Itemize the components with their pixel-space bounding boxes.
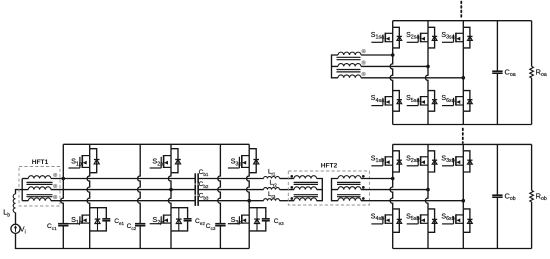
resistor R_oa [530,66,534,78]
label Ce2 [195,218,205,226]
capacitor Cc1 [58,224,68,226]
wire module-b leg 2 bottom cell vertical [427,209,429,232]
svg-text:Ce2: Ce2 [195,218,205,226]
transistor S1p&#8242; (clamp MOSFET, top) [68,155,89,168]
label S1p&#8242; [71,157,83,168]
wire phase 1 from Cb1 to Lr1 [198,178,263,180]
polarity dot HFT2 primary winding 1 [290,175,293,178]
wire module-a leg 2 from positive rail [427,21,429,28]
svg-text:S3sa: S3sa [441,32,454,41]
wire phase 2 from Cb2 to Lr2 [198,189,263,191]
transistor S3sb (top) [442,156,463,166]
label S4sa [371,95,384,104]
wire module-a leg 3 midsection [462,48,464,91]
wire module-a leg 2 bottom cell vertical [427,91,429,112]
diode of S3sa [463,27,472,48]
svg-text:S2sb: S2sb [406,155,419,164]
wire module-a leg 1 from positive rail [392,21,394,28]
wire module-b leg 3 bottom cell vertical [462,209,464,232]
capacitor Cb2 [195,184,198,194]
winding HFT2 phase-3 secondary [338,198,361,201]
wire HFT2 primary star point [317,179,323,201]
label Lr2 [270,180,278,188]
wire phase 3 from Lr3 to HFT2 [280,200,295,202]
junction node module-a phase 3 [462,76,466,80]
wire leg 2 drain connection from clamp rail [170,144,172,148]
junction node module-a phase 1 [391,53,395,57]
capacitor Ce3 (snubber) [249,208,270,231]
wire bottom rail of primary module (input negative) [16,234,250,249]
transistor S5sa (bottom) [407,96,428,106]
label Cb1 [199,169,209,177]
wire output capacitor branch module-b [496,144,498,248]
core module-a windings upper [337,57,361,59]
wire from Vi up to boost inductor Lb [15,213,17,225]
junction node module-b phase 3 [462,199,466,203]
wire module-b positive rail [393,143,532,145]
svg-text:S4sb: S4sb [371,213,384,222]
polarity mark module-a winding 3 [362,72,365,75]
wire clamp branch 3 (rail to Cc3) [218,144,221,223]
wire leg 2 midsection [168,173,171,208]
winding HFT2 phase-1 secondary [338,176,361,179]
wire clamp branch 1 (rail to Cc1) [61,144,64,223]
wire module-b phase 3 input [361,200,463,202]
wire leg 1 to bottom rail [89,231,91,249]
label S2p [152,215,163,226]
svg-text:Cc3: Cc3 [206,223,216,231]
transistor S1sb (top) [371,156,392,166]
wire phase 3 from HFT1 to Cb3 [51,200,195,202]
diode of S6sb [463,209,472,232]
diode of S4sb [393,209,402,232]
label Cb2 [199,181,209,189]
transistor S2sa (top) [407,33,428,43]
wire phase 1 from Lr1 to HFT2 [280,178,295,180]
transistor S2p (main MOSFET, bottom) [150,215,171,224]
wire load branch module-b [531,144,533,248]
wire module-b leg 3 from positive rail [462,144,464,150]
junction node phase 2 / leg 2 [169,188,173,192]
svg-text:Cb3: Cb3 [199,193,209,201]
label Roa [536,67,547,78]
wire module-a phase 2 input [361,65,428,67]
wire leg 1 drain connection from clamp rail [89,144,91,148]
diode of S6sa [463,91,472,112]
winding HFT2 phase-1 primary [294,176,317,179]
polarity mark module-a winding 2 [362,61,365,64]
polarity dot HFT2 primary winding 3 [290,197,293,200]
diode of S3sb [463,151,472,172]
svg-text:HFT2: HFT2 [321,163,338,170]
diode of S4sa [393,91,402,112]
label S2sb [406,155,419,164]
resistor R_ob [530,190,534,202]
junction node phase 1 / clamp branch [62,177,66,181]
winding HFT1 phase-1 secondary (module a) [338,52,361,55]
polarity mark HFT1 winding 3 [54,195,57,198]
core HFT2 primary-side upper [294,182,318,184]
wire module-a leg 3 from positive rail [462,21,464,28]
wire module-b negative rail [393,248,532,250]
wire module-a leg 3 bottom cell vertical [462,91,464,112]
transistor S2sb (top) [407,156,428,166]
svg-text:S4sa: S4sa [371,95,384,104]
label Cc1 [47,223,57,231]
transistor S3sa (top) [442,33,463,43]
wire module-b leg 1 midsection [390,172,393,209]
wire clamp branch 1 to bottom rail [62,226,64,249]
wire module-b phase 2 input [361,189,428,191]
svg-text:S1sb: S1sb [371,155,384,164]
svg-text:Coa: Coa [505,67,516,78]
wire module-a leg 2 midsection [425,48,428,91]
wire module-a leg 1 bottom cell vertical [392,91,394,112]
wire module-a leg 2 to negative rail [427,111,429,124]
label Rob [536,191,547,202]
wire module-a phase 3 input [361,77,463,79]
transistor S1sa (top) [371,33,392,43]
wire output capacitor branch module-a [496,21,498,125]
transformer HFT2 dashed enclosure [288,171,369,205]
svg-text:Lb: Lb [3,208,10,219]
polarity dot HFT2 secondary winding 3 [362,197,365,200]
diode of S1sb [393,151,402,172]
polarity mark module-a winding 1 [362,50,365,53]
continuation dotted line (between modules) [462,129,464,144]
voltage source Vi [11,224,20,233]
label S4sb [371,213,384,222]
svg-text:Vi: Vi [20,225,26,236]
core HFT2 secondary-side upper [337,182,361,184]
diode of S2sa [428,27,437,48]
inductor Lr3 [264,199,280,201]
core HFT1 upper [27,182,53,184]
winding bank module-a star point [332,55,339,78]
wire module-b leg 1 from positive rail [392,144,394,150]
wire module-a leg 1 to negative rail [392,111,394,124]
label S1sa [371,32,384,41]
svg-text:Lr1: Lr1 [268,169,276,177]
diode of S2sb [428,151,437,172]
wire leg 2 cell-bottom vertical [170,208,172,231]
wire leg 3 midsection [247,173,250,208]
diode of S5sb [428,209,437,232]
label HFT2 [321,163,338,170]
label Lr1 [268,169,276,177]
capacitor Cc2 [135,224,145,226]
junction node module-b phase 2 [426,188,430,192]
transistor S3p (main MOSFET, bottom) [228,215,249,224]
wire phase 2 from Lr2 to HFT2 [280,189,295,191]
svg-text:Lr3: Lr3 [268,191,276,199]
svg-text:S2p′: S2p′ [152,157,164,168]
winding HFT1 phase-1 primary [22,176,51,179]
wire module-a phase 1 input [361,54,393,56]
svg-text:S2sa: S2sa [406,32,419,41]
label Cb3 [199,193,209,201]
transistor S5sb (bottom) [407,214,428,224]
wire module-b leg 1 to negative rail [392,232,394,248]
wire clamp branch 2 (rail to Cc2) [138,144,141,223]
capacitor Ce1 (snubber) [90,208,111,231]
capacitor Cb1 [195,173,198,183]
polarity mark HFT1 winding 1 [54,173,57,176]
capacitor Cc3 [215,224,225,226]
svg-text:Cc1: Cc1 [47,223,57,231]
wire module-b leg 3 cell vertical [462,151,464,172]
transistor S2p&#8242; (clamp MOSFET, top) [150,155,171,168]
diode of S3p&#8242; (antiparallel) [249,149,259,173]
wire module-b leg 1 cell vertical [392,151,394,172]
wire leg 1 cell-bottom vertical [89,208,91,231]
polarity dot HFT2 primary winding 2 [290,186,293,189]
wire module-a leg 1 cell vertical [392,27,394,48]
wire module-b leg 2 to negative rail [427,232,429,248]
transistor S4sa (bottom) [371,96,392,106]
wire HFT1 primary star point [21,179,23,201]
transistor S3p&#8242; (clamp MOSFET, top) [228,155,249,168]
wire module-a positive rail [393,20,532,22]
wire module-a leg 3 to negative rail [462,111,464,124]
junction node phase 3 / leg 3 [247,199,251,203]
transistor S6sa (bottom) [442,96,463,106]
winding HFT2 phase-3 primary [294,198,317,201]
wire module-a leg 3 cell vertical [462,27,464,48]
transistor S4sb (bottom) [371,214,392,224]
wire leg 2 to bottom rail [170,231,172,249]
diode of S5sa [428,91,437,112]
label S5sb [406,213,419,222]
winding HFT1 phase-3 secondary (module a) [338,75,361,78]
wire leg 3 main vertical (cell side) [248,149,250,173]
capacitor C_oa [492,71,502,73]
core HFT2 primary-side lower [294,195,318,197]
label S2sa [406,32,419,41]
wire leg 1 main vertical (cell side) [89,149,91,173]
svg-text:Cob: Cob [505,191,516,202]
label S1sb [371,155,384,164]
core HFT2 secondary-side lower [337,195,361,197]
diode of S1p&#8242; (antiparallel) [90,149,100,173]
label S3sb [441,155,454,164]
junction node module-a phase 2 [426,65,430,69]
label Lb [3,208,10,219]
wire module-b leg 3 to negative rail [462,232,464,248]
svg-text:S5sb: S5sb [406,213,419,222]
label S5sa [406,95,419,104]
label Vi [20,225,26,236]
capacitor Cb3 [195,196,198,206]
inductor Lb [13,194,15,213]
winding HFT1 phase-2 primary [22,187,51,190]
wire module-b phase 1 input [361,178,393,180]
label S3p [231,215,242,226]
wire leg 1 midsection [87,173,90,208]
svg-text:S3sb: S3sb [441,155,454,164]
svg-text:Ce3: Ce3 [274,218,284,226]
wire clamp branch 3 to bottom rail [219,226,221,249]
capacitor Ce2 (snubber) [171,208,192,231]
wire module-b leg 1 bottom cell vertical [392,209,394,232]
svg-text:S1p′: S1p′ [71,157,83,168]
svg-text:S6sb: S6sb [441,213,454,222]
label S1p [71,215,82,226]
core module-a windings lower [337,70,361,72]
svg-text:Rob: Rob [536,191,547,202]
transistor S6sb (bottom) [442,214,463,224]
winding HFT1 phase-3 primary [22,198,51,201]
label Coa [505,67,516,78]
label Cob [505,191,516,202]
wire module-a leg 1 midsection [390,48,393,91]
wire leg 3 drain connection from clamp rail [248,144,250,148]
diode of S1p (antiparallel) [95,208,101,231]
label S6sa [441,95,454,104]
wire clamp rail (top rail of primary module) [63,143,249,145]
diode of S2p (antiparallel) [176,208,182,231]
label S3sa [441,32,454,41]
wire module-b leg 2 midsection [425,172,428,209]
wire leg 2 main vertical (cell side) [170,149,172,173]
svg-text:S3p′: S3p′ [231,157,243,168]
label S6sb [441,213,454,222]
svg-text:Lr2: Lr2 [270,180,278,188]
wire load branch module-a [531,21,533,125]
transformer HFT1 dashed enclosure [19,167,60,207]
continuation dotted line (more modules above) [460,2,462,20]
svg-text:Cb1: Cb1 [199,169,209,177]
svg-text:HFT1: HFT1 [32,159,49,166]
wire from Lb to HFT1 primary star point [16,190,23,194]
wire module-b leg 2 cell vertical [427,151,429,172]
polarity dot HFT2 secondary winding 2 [362,186,365,189]
label S3p&#8242; [231,157,243,168]
wire module-a negative rail [393,124,532,126]
diode of S2p&#8242; (antiparallel) [171,149,181,173]
label Cc2 [127,223,137,231]
diode of S1sa [393,27,402,48]
inductor Lr2 [264,188,280,190]
winding HFT2 phase-2 primary [294,187,317,190]
junction node module-b phase 1 [391,177,395,181]
label Lr3 [268,191,276,199]
svg-text:Roa: Roa [536,67,547,78]
polarity dot HFT2 secondary winding 1 [362,175,365,178]
diode of S3p (antiparallel) [254,208,260,231]
wire clamp branch 2 to bottom rail [139,226,141,249]
label Ce1 [114,218,124,226]
label HFT1 [32,159,49,166]
wire leg 3 cell-bottom vertical [248,208,250,231]
svg-text:S6sa: S6sa [441,95,454,104]
wire module-b leg 3 midsection [462,172,464,209]
label Cc3 [206,223,216,231]
label S2p&#8242; [152,157,164,168]
svg-text:Ce1: Ce1 [114,218,124,226]
transistor S1p (main MOSFET, bottom) [68,215,89,224]
core HFT1 lower [27,195,53,197]
wire leg 3 to bottom rail [248,231,250,249]
wire module-a leg 2 cell vertical [427,27,429,48]
wire phase 1 from HFT1 to Cb1 [51,178,195,180]
label Ce3 [274,218,284,226]
wire phase 2 from HFT1 to Cb2 [51,189,195,191]
svg-text:S5sa: S5sa [406,95,419,104]
inductor Lr1 [264,177,280,179]
wire module-b leg 2 from positive rail [427,144,429,150]
winding HFT1 phase-2 secondary (module a) [338,64,361,67]
winding HFT2 phase-2 secondary [338,187,361,190]
wire phase 3 from Cb3 to Lr3 [198,200,263,202]
capacitor C_ob [492,195,502,197]
svg-text:Cb2: Cb2 [199,181,209,189]
svg-text:S1sa: S1sa [371,32,384,41]
wire HFT2 secondary star point [332,179,339,201]
polarity mark HFT1 winding 2 [54,184,57,187]
